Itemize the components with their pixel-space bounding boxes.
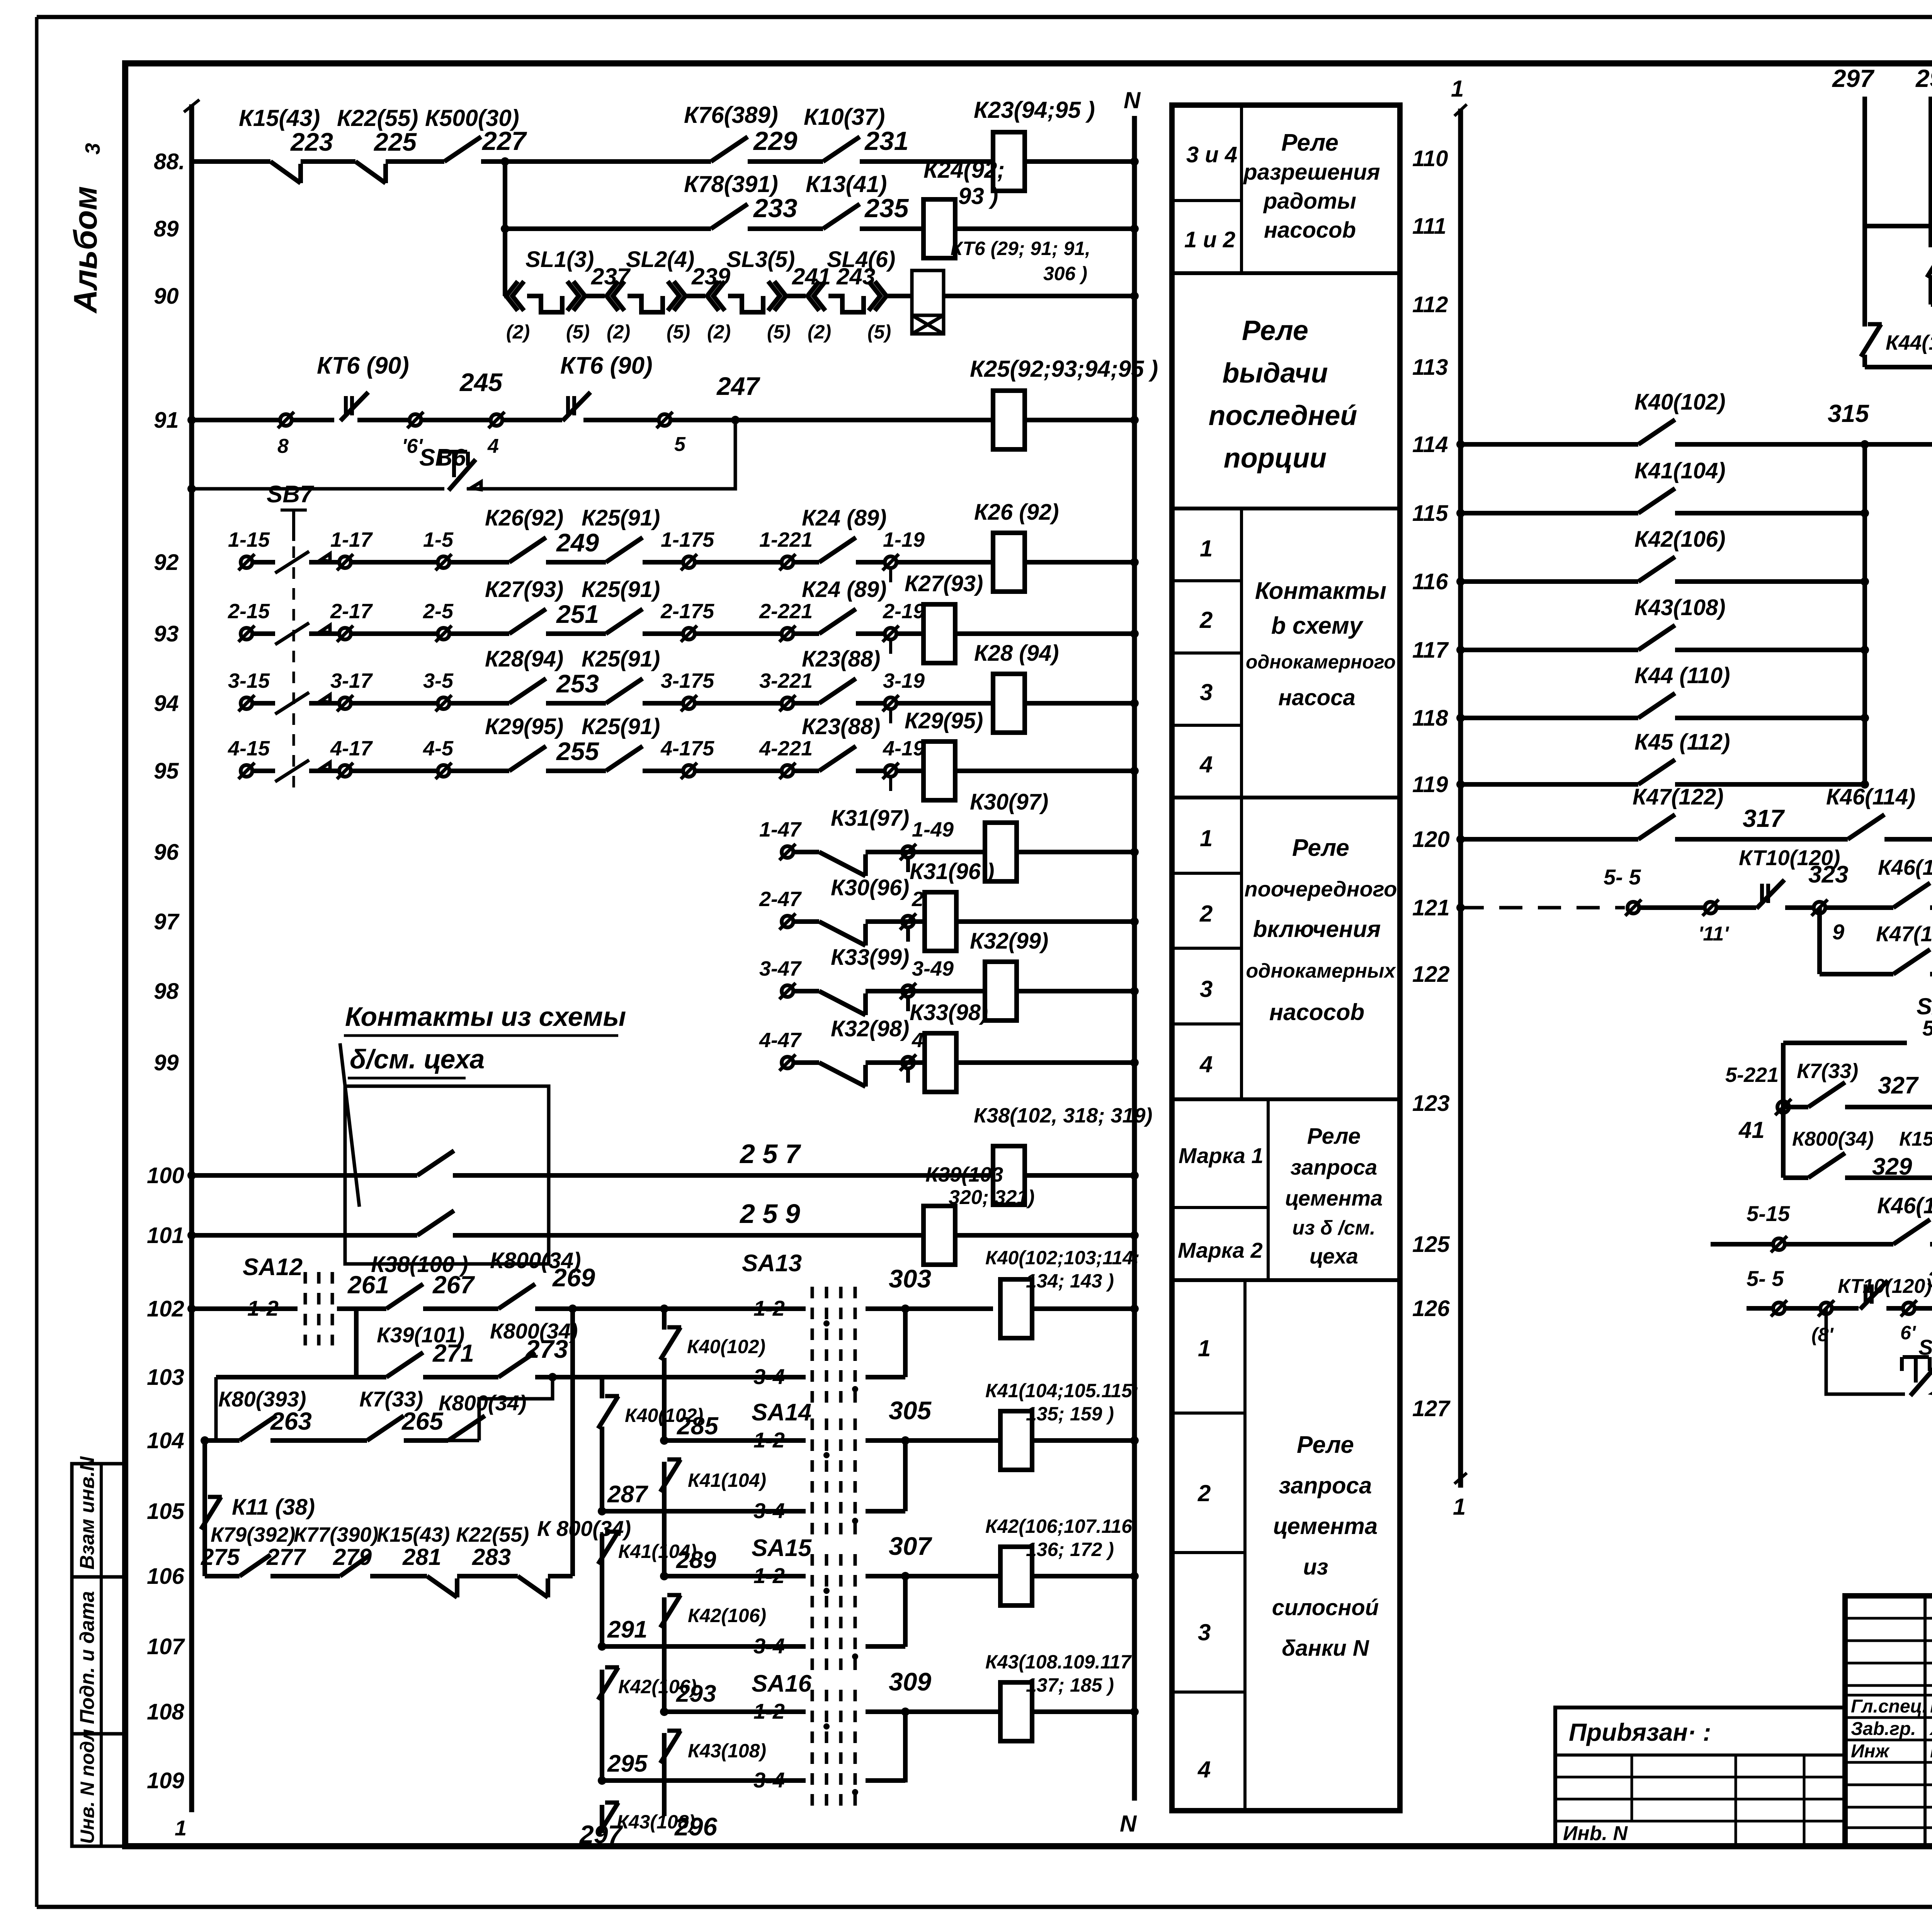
pushbutton SB8 xyxy=(1914,1357,1918,1383)
svg-text:107: 107 xyxy=(147,1634,185,1659)
svg-text:295: 295 xyxy=(607,1750,648,1777)
svg-text:К26(92): К26(92) xyxy=(485,505,563,531)
contact К41(104) xyxy=(1638,488,1675,513)
svg-text:К40(102): К40(102) xyxy=(687,1336,765,1357)
terminal 323 / 9 xyxy=(1814,902,1825,913)
svg-text:110: 110 xyxy=(1412,146,1448,171)
svg-text:113: 113 xyxy=(1412,355,1448,380)
node 303 xyxy=(901,1304,910,1313)
bus junction 104 xyxy=(1130,1436,1139,1445)
rung 126 wire xyxy=(1747,1306,1772,1311)
relay coil К31(96 ) xyxy=(925,892,956,951)
svg-text:3-4: 3-4 xyxy=(753,1364,785,1389)
svg-text:122: 122 xyxy=(1412,962,1450,987)
svg-text:К32(98): К32(98) xyxy=(831,1016,909,1041)
relay coil К27(93) xyxy=(923,604,955,663)
relay coil К29(95) xyxy=(923,742,955,800)
relay coil К28 (94) xyxy=(993,674,1025,733)
title block left grid rows xyxy=(1845,1617,1932,1620)
rung 118 wire xyxy=(1461,716,1638,720)
svg-text:102: 102 xyxy=(147,1296,184,1321)
node 227 junction xyxy=(501,157,509,166)
terminal 1-221 xyxy=(782,556,793,568)
contact К40(102) xyxy=(1638,420,1675,444)
node 291 xyxy=(598,1642,606,1651)
svg-text:SА12: SА12 xyxy=(243,1254,303,1281)
svg-text:4-19: 4-19 xyxy=(883,737,925,760)
bus junction 96 xyxy=(1130,848,1139,856)
svg-text:N: N xyxy=(1124,87,1141,113)
svg-text:К28(94): К28(94) xyxy=(485,646,563,672)
svg-text:Прubязан· :: Прubязан· : xyxy=(1569,1718,1711,1746)
svg-text:1-5: 1-5 xyxy=(423,528,454,551)
limit switch SL2(4) xyxy=(607,281,618,311)
svg-text:243: 243 xyxy=(836,264,875,289)
svg-text:К7(33): К7(33) xyxy=(1797,1060,1858,1083)
terminal 3-15 xyxy=(241,697,252,709)
svg-text:296: 296 xyxy=(1915,65,1932,92)
svg-text:3-4: 3-4 xyxy=(753,1634,785,1658)
svg-text:3-4: 3-4 xyxy=(753,1768,785,1792)
left ladder: right bus wire N xyxy=(1132,116,1137,1801)
contact K46(114) rung 125 xyxy=(1893,1219,1930,1244)
svg-text:93 ): 93 ) xyxy=(958,183,998,209)
svg-text:К22(55): К22(55) xyxy=(337,105,418,131)
svg-text:1: 1 xyxy=(1198,1335,1211,1361)
rung 98 wire xyxy=(793,989,819,993)
contact K10(37) xyxy=(823,137,860,162)
svg-text:112: 112 xyxy=(1412,292,1448,317)
svg-text:К47(122): К47(122) xyxy=(1876,922,1932,946)
terminal 4-17 xyxy=(339,765,351,777)
terminal 4-175 xyxy=(683,765,695,777)
svg-text:К25(91): К25(91) xyxy=(582,714,660,739)
svg-text:Инb. N: Инb. N xyxy=(1563,1822,1628,1845)
svg-text:К15(43): К15(43) xyxy=(1899,1128,1932,1150)
rung 114 wire to coil xyxy=(1865,442,1932,447)
svg-text:1-2: 1-2 xyxy=(247,1296,279,1320)
middle legend table frame xyxy=(1172,105,1400,1811)
svg-text:К27(93): К27(93) xyxy=(485,577,563,602)
svg-text:1 u 2: 1 u 2 xyxy=(1184,227,1235,252)
svg-text:136; 172 ): 136; 172 ) xyxy=(1026,1539,1114,1560)
svg-text:229: 229 xyxy=(753,126,798,156)
contact К26(92) on rung 92 xyxy=(509,537,546,562)
svg-text:К30(97): К30(97) xyxy=(970,789,1048,815)
svg-text:123: 123 xyxy=(1412,1091,1450,1116)
contact K43(108) on V2 xyxy=(660,1731,680,1763)
right ladder: left bus wire 1 xyxy=(1458,109,1463,1488)
rung 120 wire xyxy=(1461,837,1638,842)
contact К25(91) on rung 94 xyxy=(606,679,643,703)
svg-text:К44(110): К44(110) xyxy=(1886,331,1932,354)
svg-text:bыдачu: bыдачu xyxy=(1222,358,1328,389)
svg-text:К27(93): К27(93) xyxy=(905,571,983,596)
svg-text:1-2: 1-2 xyxy=(753,1563,785,1588)
leader line to box xyxy=(340,1043,359,1207)
terminal 2-175 xyxy=(683,628,695,639)
svg-text:3-17: 3-17 xyxy=(330,669,373,692)
svg-text:4: 4 xyxy=(1199,1051,1213,1077)
contact K44(110) on 296 vertical xyxy=(1927,245,1932,277)
svg-text:271: 271 xyxy=(432,1339,474,1367)
svg-text:Реле: Реле xyxy=(1297,1432,1354,1458)
svg-text:К24 (89): К24 (89) xyxy=(802,505,886,531)
limit switch SL4(6) xyxy=(808,281,819,311)
svg-text:заnроса: заnроса xyxy=(1291,1155,1378,1179)
svg-text:(5): (5) xyxy=(566,321,590,343)
svg-text:SB7: SB7 xyxy=(267,481,314,508)
svg-text:SА13: SА13 xyxy=(742,1250,802,1277)
svg-text:94: 94 xyxy=(154,691,179,716)
svg-text:119: 119 xyxy=(1412,772,1448,797)
bus junction 108 xyxy=(1130,1708,1139,1716)
rung 104 left network wire xyxy=(205,1438,240,1443)
contact К27(93) on rung 93 xyxy=(509,609,546,634)
terminal 6 xyxy=(1903,1303,1915,1314)
svg-text:329: 329 xyxy=(1872,1153,1912,1180)
svg-text:1-15: 1-15 xyxy=(228,528,270,551)
contact K7(33) xyxy=(367,1416,404,1440)
svg-text:К43(108.109.117: К43(108.109.117 xyxy=(985,1651,1132,1673)
svg-text:(2): (2) xyxy=(607,321,630,343)
terminal 1-175 xyxy=(683,556,695,568)
contact K800(34) right xyxy=(1808,1153,1845,1178)
rung 94 wire xyxy=(252,701,275,706)
contact K500(30) xyxy=(444,137,481,162)
limit switch SL3(5) xyxy=(707,281,719,311)
svg-text:nорцuu: nорцuu xyxy=(1224,443,1327,474)
svg-text:К29(95): К29(95) xyxy=(485,714,563,739)
bus junction 90 xyxy=(1130,292,1139,300)
svg-text:227: 227 xyxy=(481,126,527,156)
svg-text:Кадыкоbа: Кадыкоbа xyxy=(1930,1741,1932,1762)
SA12 box verticals xyxy=(1781,1043,1786,1178)
terminal 1-19 xyxy=(885,556,896,568)
svg-text:SL1(3): SL1(3) xyxy=(526,247,594,272)
svg-text:SА14: SА14 xyxy=(752,1399,811,1426)
svg-text:275: 275 xyxy=(201,1544,240,1570)
rung 101 wire xyxy=(192,1233,417,1238)
contact K42(106) on V2 xyxy=(660,1595,680,1628)
svg-text:93: 93 xyxy=(154,621,179,646)
bus junction 106 xyxy=(1130,1572,1139,1580)
svg-text:6': 6' xyxy=(1900,1322,1917,1344)
contact К45 (112) xyxy=(1638,760,1675,784)
svg-text:3: 3 xyxy=(81,143,104,155)
node 307 xyxy=(901,1572,910,1580)
svg-text:4-175: 4-175 xyxy=(660,737,714,760)
svg-text:109: 109 xyxy=(147,1768,184,1793)
bus junction 89 xyxy=(1130,224,1139,233)
svg-text:цеха: цеха xyxy=(1310,1244,1358,1268)
rung 107 3-4 wire xyxy=(602,1644,806,1649)
title block frame xyxy=(1845,1596,1932,1846)
svg-text:К25(91): К25(91) xyxy=(582,505,660,531)
svg-text:2: 2 xyxy=(1199,607,1213,633)
bus junction 88 xyxy=(1130,157,1139,166)
node 309 xyxy=(901,1708,910,1716)
rung 114 wire xyxy=(1461,442,1638,447)
rung 103 wire xyxy=(216,1375,386,1379)
svg-text:327: 327 xyxy=(1878,1072,1919,1099)
terminal 4-5 xyxy=(438,765,449,777)
contact K11(38) xyxy=(201,1497,221,1529)
svg-text:3: 3 xyxy=(1200,679,1213,705)
svg-text:разрешения: разрешения xyxy=(1243,160,1380,185)
svg-text:К33(98): К33(98) xyxy=(910,1000,988,1025)
svg-text:277: 277 xyxy=(266,1544,306,1570)
svg-text:41: 41 xyxy=(1738,1117,1765,1143)
svg-text:К28 (94): К28 (94) xyxy=(974,641,1059,666)
margin box Подп и дата xyxy=(72,1577,125,1734)
SA12 line 329 xyxy=(1783,1175,1808,1180)
svg-text:1-2: 1-2 xyxy=(753,1296,785,1320)
svg-text:SА16: SА16 xyxy=(752,1670,812,1697)
svg-text:97: 97 xyxy=(154,909,180,934)
svg-text:100: 100 xyxy=(147,1163,184,1188)
svg-text:К76(389): К76(389) xyxy=(684,102,778,128)
svg-text:К23(88): К23(88) xyxy=(802,714,880,739)
SА14 dashed links xyxy=(811,1418,814,1538)
svg-text:297: 297 xyxy=(579,1820,623,1849)
relay coil K23 xyxy=(993,132,1025,191)
svg-text:2-5: 2-5 xyxy=(423,600,454,623)
contact К25(91) on rung 93 xyxy=(606,609,643,634)
svg-text:3-221: 3-221 xyxy=(759,669,813,692)
contact K800(34) rung 103 xyxy=(498,1352,535,1377)
svg-text:однокамерных: однокамерных xyxy=(1246,960,1396,982)
rung 104 1-2 wire xyxy=(664,1438,806,1443)
contact К23(88) on rung 94 xyxy=(819,679,856,703)
vertical 9 link xyxy=(1817,908,1822,974)
SA13 dashed links xyxy=(811,1287,814,1406)
svg-text:3-175: 3-175 xyxy=(661,669,714,692)
svg-text:Реле: Реле xyxy=(1242,315,1308,346)
svg-text:267: 267 xyxy=(432,1271,475,1299)
svg-text:1-2: 1-2 xyxy=(753,1428,785,1452)
svg-text:Альбом: Альбом xyxy=(67,186,104,314)
contact K39(101) xyxy=(386,1352,423,1377)
svg-text:8: 8 xyxy=(277,435,289,457)
svg-text:К38(102, 318; 319): К38(102, 318; 319) xyxy=(974,1104,1153,1127)
rung 90 wire segments xyxy=(503,294,507,298)
svg-text:К45 (112): К45 (112) xyxy=(1634,730,1730,755)
svg-text:134; 143 ): 134; 143 ) xyxy=(1026,1270,1114,1292)
svg-text:281: 281 xyxy=(402,1544,441,1570)
relay coil K24 xyxy=(923,199,955,258)
terminal 5-15 xyxy=(1773,1238,1785,1250)
svg-text:251: 251 xyxy=(556,600,599,628)
bus junction 95 xyxy=(1130,767,1139,775)
contact К24 (89) on rung 93 xyxy=(819,609,856,634)
legend text Реле запроса цемента из б/см цеха xyxy=(1172,1278,1400,1282)
svg-text:Подn. u дата: Подn. u дата xyxy=(76,1591,99,1724)
terminal 4-19 xyxy=(885,765,896,777)
vertical 269 to rung 106 xyxy=(570,1309,575,1377)
svg-text:245: 245 xyxy=(459,368,503,396)
svg-text:(8': (8' xyxy=(1811,1324,1834,1345)
margin box Взам инв N xyxy=(72,1464,125,1577)
svg-text:4: 4 xyxy=(487,435,499,457)
legend text Реле выдачи последней порции xyxy=(1172,507,1400,510)
rung 112 wire 1-2 SA18 xyxy=(1931,302,1932,307)
contact K78(391) xyxy=(711,204,748,229)
svg-text:4-17: 4-17 xyxy=(330,737,373,760)
svg-text:Контакты: Контакты xyxy=(1255,578,1386,604)
svg-text:Заb.гр.: Заb.гр. xyxy=(1851,1719,1916,1739)
terminal 1-17 xyxy=(339,556,351,568)
svg-text:К32(99): К32(99) xyxy=(970,929,1048,954)
pривязан box xyxy=(1555,1708,1845,1845)
svg-text:1-17: 1-17 xyxy=(330,528,373,551)
svg-text:К77(390): К77(390) xyxy=(294,1523,378,1546)
svg-text:4-15: 4-15 xyxy=(228,737,270,760)
svg-text:2-47: 2-47 xyxy=(759,888,802,911)
legend row 3и4 / 1и2 xyxy=(1172,199,1242,202)
svg-text:98: 98 xyxy=(154,979,179,1004)
svg-text:1-221: 1-221 xyxy=(759,528,813,551)
relay coil K38 xyxy=(993,1146,1025,1205)
contact К28(94) on rung 94 xyxy=(509,679,546,703)
svg-text:К22(55): К22(55) xyxy=(456,1523,529,1546)
terminal 11 xyxy=(1705,902,1716,913)
svg-text:2 5 9: 2 5 9 xyxy=(739,1199,800,1229)
contact K46(114) rung 121 xyxy=(1893,883,1930,908)
svg-text:радоты: радоты xyxy=(1263,189,1356,214)
left ladder: left bus wire xyxy=(189,104,194,1812)
terminal circle 5 xyxy=(659,414,670,426)
svg-text:К15(43): К15(43) xyxy=(377,1523,450,1546)
relay coil К32(99) xyxy=(985,962,1017,1020)
contact К31(97) on rung 96 xyxy=(819,852,866,876)
svg-text:315: 315 xyxy=(1828,400,1869,427)
svg-text:Реле: Реле xyxy=(1281,129,1338,156)
svg-text:К43(108): К43(108) xyxy=(617,1811,695,1833)
vertical chain V1 from rung 103 xyxy=(214,1377,218,1440)
vertical 261 to rung 103 xyxy=(354,1309,359,1377)
timer contact KT6(90) a xyxy=(344,396,348,415)
svg-text:uз δ /см.: uз δ /см. xyxy=(1292,1217,1375,1239)
node 273 xyxy=(548,1373,557,1381)
svg-text:SА15: SА15 xyxy=(752,1535,812,1561)
svg-text:317: 317 xyxy=(1743,804,1785,832)
svg-text:2-19: 2-19 xyxy=(883,600,925,623)
contact K13(41) xyxy=(823,204,860,229)
svg-text:306 ): 306 ) xyxy=(1043,263,1087,284)
svg-text:К42(106): К42(106) xyxy=(1634,527,1726,552)
contact K15(43) xyxy=(270,162,301,183)
rung 93 wire xyxy=(252,631,275,636)
svg-text:1: 1 xyxy=(1453,1494,1466,1520)
svg-text:К24 (89): К24 (89) xyxy=(802,577,886,602)
contact K80(393) xyxy=(240,1416,276,1440)
svg-text:4-5: 4-5 xyxy=(423,737,454,760)
terminal 3-17 xyxy=(339,697,351,709)
svg-text:Uнв. N noдл: Uнв. N noдл xyxy=(77,1729,98,1844)
svg-text:297: 297 xyxy=(1832,65,1875,92)
SA12 5-6 line xyxy=(1783,1041,1907,1045)
contact K46(114) rung 120 xyxy=(1848,815,1884,839)
svg-text:1-47: 1-47 xyxy=(759,818,802,841)
svg-text:118: 118 xyxy=(1412,706,1448,731)
wire from node 227 down to rung 89 xyxy=(503,162,507,229)
svg-text:120: 120 xyxy=(1412,827,1450,852)
svg-text:К43(108): К43(108) xyxy=(1634,595,1726,620)
timer contact KT10(120) rung 121 xyxy=(1760,884,1764,903)
terminal 3-221 xyxy=(782,697,793,709)
legend rows 1-4 (контакты) xyxy=(1172,579,1242,582)
rung 102 wire segments xyxy=(192,1306,298,1311)
svg-text:265: 265 xyxy=(401,1407,444,1435)
margin box Инв N подл xyxy=(72,1734,125,1846)
svg-text:К44 (110): К44 (110) xyxy=(1634,663,1730,688)
timer contact KT10(120) a rung 126 xyxy=(1864,1284,1867,1304)
node 285 xyxy=(660,1436,668,1445)
svg-text:1: 1 xyxy=(1200,825,1213,851)
legend text Контакты в схему однокамерного насоса xyxy=(1172,796,1400,799)
node 289 xyxy=(660,1572,668,1580)
SB6 bypass branch wire xyxy=(192,487,444,491)
rung 97 wire xyxy=(793,919,819,924)
contact К24 (89) on rung 92 xyxy=(819,537,856,562)
rung 105 3-4 wire xyxy=(602,1509,806,1514)
node 247 xyxy=(731,416,740,424)
svg-text:2-221: 2-221 xyxy=(759,600,813,623)
svg-text:263: 263 xyxy=(270,1407,312,1435)
svg-text:К46(114): К46(114) xyxy=(1878,855,1932,879)
svg-text:323: 323 xyxy=(1808,861,1848,888)
wire from rung 89 down to rung 90 xyxy=(503,229,507,296)
svg-text:253: 253 xyxy=(556,669,599,698)
relay coil К33(98) xyxy=(925,1033,956,1092)
svg-text:К25(91): К25(91) xyxy=(582,577,660,602)
svg-text:насосоb: насосоb xyxy=(1269,999,1364,1025)
svg-text:К25(91): К25(91) xyxy=(582,646,660,672)
contact К42(106) xyxy=(1638,557,1675,582)
svg-text:(2): (2) xyxy=(506,321,530,343)
svg-text:5-221: 5-221 xyxy=(1725,1063,1779,1087)
terminal 3-49 xyxy=(902,985,914,997)
svg-text:90: 90 xyxy=(154,284,179,309)
svg-text:95: 95 xyxy=(154,759,179,784)
bus junction 99 xyxy=(1130,1058,1139,1067)
relay coil K39 xyxy=(923,1206,955,1265)
terminal 5-5 rung 121 xyxy=(1628,902,1639,913)
svg-text:Реле: Реле xyxy=(1292,835,1349,861)
svg-text:5- 5: 5- 5 xyxy=(1747,1266,1784,1291)
svg-text:106: 106 xyxy=(147,1564,185,1589)
terminal 2-47 xyxy=(782,916,793,927)
rung 108 1-2 wire xyxy=(664,1709,806,1714)
svg-text:b схему: b схему xyxy=(1271,612,1364,639)
svg-text:(5): (5) xyxy=(667,321,690,343)
svg-text:насоса: насоса xyxy=(1278,685,1355,710)
rung 106 left network wire xyxy=(205,1574,240,1578)
svg-text:К41(104;105.115;: К41(104;105.115; xyxy=(985,1380,1139,1401)
rung 100 wire xyxy=(192,1173,417,1178)
terminal 2-5 xyxy=(438,628,449,639)
svg-text:114: 114 xyxy=(1412,432,1448,457)
SB7 contact on rung 95 xyxy=(275,760,309,782)
svg-text:К43(108): К43(108) xyxy=(688,1740,766,1762)
svg-text:1: 1 xyxy=(1451,76,1464,102)
svg-text:116: 116 xyxy=(1412,569,1448,594)
contact K79(392) xyxy=(240,1555,270,1576)
svg-text:SB6: SB6 xyxy=(419,444,466,471)
svg-text:291: 291 xyxy=(607,1616,647,1643)
contact K38(100) xyxy=(386,1284,423,1309)
